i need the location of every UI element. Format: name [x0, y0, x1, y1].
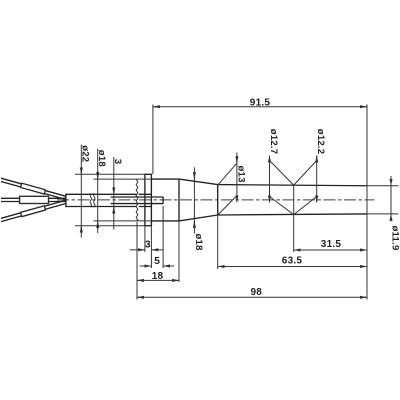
- svg-text:3: 3: [145, 239, 151, 250]
- svg-text:ø11.9: ø11.9: [389, 226, 400, 251]
- svg-text:5: 5: [154, 256, 160, 267]
- dim phi18 body: [193, 167, 195, 233]
- dim phi12.2: [316, 156, 318, 203]
- narrow bottom edge: [218, 214, 367, 215]
- dim phi12.7: [269, 156, 271, 203]
- cable end cap: [65, 194, 67, 208]
- cable resumed through flange: [139, 194, 152, 206]
- cable break squiggle: [90, 193, 95, 207]
- ferrule bottom: [21, 206, 46, 217]
- taper bottom: [179, 215, 218, 221]
- pin (inner conductor): [111, 197, 163, 204]
- svg-text:ø12.2: ø12.2: [315, 129, 326, 155]
- section projection V lower: [270, 197, 317, 215]
- sheath top edge + ext: [93, 178, 151, 180]
- dim 18: [137, 221, 179, 282]
- svg-text:ø13: ø13: [236, 166, 247, 183]
- svg-text:91.5: 91.5: [250, 97, 271, 108]
- dim phi11.9: [367, 176, 399, 221]
- flange: [145, 174, 152, 225]
- dim phi22: [75, 145, 145, 238]
- body end vertical: [178, 179, 180, 221]
- svg-text:3: 3: [112, 159, 123, 165]
- dim 63.5: [218, 215, 367, 269]
- svg-text:18: 18: [152, 271, 164, 282]
- dim phi18 left: [97, 149, 99, 233]
- dim 98: [137, 222, 367, 300]
- cable: [66, 194, 137, 206]
- narrow section start: [217, 185, 219, 215]
- narrow top edge: [218, 185, 367, 186]
- right master extension line: [366, 105, 368, 300]
- ferrule top: [21, 183, 46, 194]
- dim 3 pin leader: [113, 157, 115, 230]
- svg-text:31.5: 31.5: [321, 239, 342, 250]
- svg-text:ø18: ø18: [96, 150, 107, 168]
- centerline: [57, 199, 375, 201]
- sheath break zigzag: [136, 179, 138, 221]
- taper top: [179, 179, 218, 185]
- svg-text:ø18: ø18: [193, 234, 204, 252]
- wire top: [1, 178, 66, 199]
- sheath bottom edge + ext: [93, 220, 151, 222]
- svg-text:ø12.7: ø12.7: [268, 129, 279, 155]
- dim 3: [130, 227, 164, 253]
- wire middle: [1, 198, 66, 201]
- wire bottom: [1, 200, 66, 221]
- dim 5: [140, 206, 175, 268]
- dim 91.5: [153, 105, 367, 175]
- section line 31.5: [293, 185, 295, 252]
- section projection V upper: [270, 161, 317, 186]
- svg-text:98: 98: [250, 287, 262, 298]
- svg-text:ø22: ø22: [80, 145, 91, 162]
- ferrule middle: [20, 196, 49, 203]
- svg-text:63.5: 63.5: [282, 256, 303, 267]
- dim 31.5: [294, 249, 367, 251]
- dim phi13: [218, 153, 237, 215]
